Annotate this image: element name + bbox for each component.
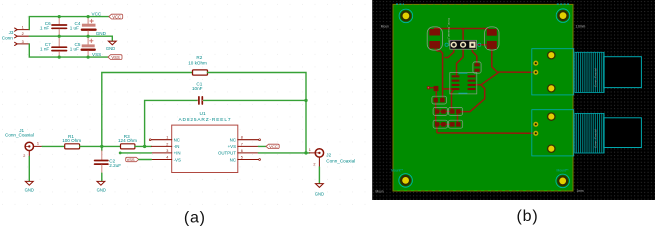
trace C right bottom pad to upper coax signal	[492, 49, 533, 72]
svg-text:Conn_Coaxial: Conn_Coaxial	[326, 159, 355, 164]
trace pad to row1	[435, 91, 437, 98]
mounting hole bottom-right	[556, 174, 570, 188]
wire C1 riser	[145, 100, 198, 146]
svg-text:7: 7	[241, 142, 243, 146]
svg-text:2: 2	[22, 32, 24, 36]
svg-text:3: 3	[166, 149, 168, 153]
wire VCC top rail	[29, 17, 109, 30]
capacitor C1	[192, 82, 204, 104]
svg-text:(a): (a)	[184, 210, 206, 227]
svg-text:Conn_Coaxial: Conn_Coaxial	[594, 68, 598, 87]
ground J2	[315, 167, 324, 197]
pin 1	[17, 29, 29, 31]
wire GND mid rail	[29, 36, 112, 41]
pin 8 NC	[238, 139, 259, 141]
vertical passive pad above row1	[434, 86, 439, 91]
svg-text:U1: U1	[200, 111, 206, 117]
pin 5 NC	[238, 159, 259, 161]
svg-text:1: 1	[37, 142, 39, 146]
trace bottom bus to lower coax	[437, 132, 533, 134]
node junction output	[304, 151, 307, 154]
wire R1 to R3	[80, 145, 121, 147]
svg-text:GND: GND	[106, 46, 115, 51]
svg-text:1: 1	[22, 26, 24, 30]
svg-text:1.6mm: 1.6mm	[576, 24, 586, 28]
svg-text:GND: GND	[97, 187, 106, 192]
capacitor footprint C left	[427, 27, 442, 50]
trace header pad3 to C?2 bottom pad	[476, 44, 487, 46]
power flag VSS	[108, 55, 122, 60]
svg-text:VSS: VSS	[92, 52, 101, 57]
svg-text:(b): (b)	[517, 208, 539, 225]
svg-text:NC: NC	[230, 138, 236, 143]
passive footprint row2 left	[433, 107, 447, 115]
svg-text:Mount**: Mount**	[391, 169, 404, 173]
capacitor C2	[95, 146, 122, 181]
svg-text:2: 2	[23, 154, 25, 158]
svg-text:Conn_Coaxial_Force: Conn_Coaxial_Force	[447, 18, 451, 47]
svg-text:124 Ohm: 124 Ohm	[118, 138, 137, 143]
coaxial connector J upper footprint	[532, 49, 642, 95]
trace C6 bottom down left column	[435, 49, 443, 101]
pin 4 -VS	[151, 159, 171, 161]
svg-text:J3: J3	[9, 30, 14, 35]
svg-text:1 nF: 1 nF	[40, 46, 49, 51]
ground C2	[97, 181, 106, 192]
svg-text:VCC: VCC	[112, 14, 121, 19]
svg-text:1 uF: 1 uF	[70, 26, 79, 31]
pin 1 NC	[151, 139, 171, 141]
svg-text:1mm: 1mm	[577, 189, 584, 193]
svg-text:1: 1	[309, 148, 311, 152]
svg-text:10nF: 10nF	[192, 86, 203, 91]
passive footprint row1	[432, 96, 447, 104]
trace row3 interconnect	[439, 123, 450, 125]
ground J1	[25, 157, 34, 193]
silkscreen dashes top edge left	[396, 3, 404, 5]
board edge dashes top	[412, 4, 470, 6]
svg-text:2: 2	[313, 162, 315, 166]
op-amp U1 AD825ARZ-REEL7	[149, 111, 260, 172]
SOIC-8 U1 footprint	[450, 73, 477, 94]
svg-text:AD825ARZ-REEL7: AD825ARZ-REEL7	[179, 117, 231, 123]
svg-text:VCC: VCC	[92, 12, 102, 17]
trace U1 left pad4 down to passive row2	[452, 90, 454, 109]
trace header pad2 down to U1 pad1	[457, 45, 464, 77]
capacitor C6	[40, 17, 67, 37]
svg-text:4: 4	[166, 156, 168, 160]
pin 6 OUTPUT	[238, 152, 259, 154]
svg-text:J2: J2	[326, 152, 331, 157]
trace branch to U1 pad 4	[443, 88, 452, 90]
wire VSS bottom rail	[29, 44, 108, 57]
svg-text:100 Ohm: 100 Ohm	[62, 138, 81, 143]
wire +VS to VCC flag	[258, 145, 266, 147]
svg-text:6: 6	[241, 149, 243, 153]
pin 3	[17, 43, 29, 45]
silkscreen marker right of header	[478, 43, 481, 46]
junction dots power rails	[58, 15, 90, 59]
pin 2 -IN	[151, 145, 171, 147]
trace U1 pin6 down around to passives	[461, 85, 485, 112]
pin header J3 footprint	[447, 18, 477, 49]
svg-text:5: 5	[241, 156, 243, 160]
svg-text:Mount**: Mount**	[557, 169, 570, 173]
trace row2 right down to row3	[457, 114, 459, 122]
capacitor C4 polarized	[70, 17, 96, 37]
svg-text:+IN: +IN	[174, 151, 181, 156]
connector J2 Conn_Coaxial	[309, 148, 355, 167]
svg-text:NC: NC	[230, 157, 236, 162]
trace vertical passive top pad to header pad3	[472, 48, 476, 64]
node junction C1/R2 output	[304, 99, 307, 102]
power flag VCC at pin 7	[266, 144, 279, 149]
PCB board outline	[393, 4, 573, 191]
capacitor footprint C right	[485, 27, 499, 50]
svg-text:VSS: VSS	[127, 157, 135, 162]
svg-text:10 kOhm: 10 kOhm	[188, 60, 207, 65]
trace left column verticals	[436, 102, 437, 133]
svg-text:OUTPUT: OUTPUT	[218, 151, 236, 156]
capacitor C5 polarized	[70, 36, 95, 57]
svg-text:Conn: Conn	[2, 36, 13, 41]
svg-text:GND: GND	[25, 187, 34, 192]
trace header pad1 to left vertical	[445, 48, 454, 58]
svg-text:NC: NC	[174, 138, 180, 143]
svg-text:1: 1	[166, 136, 168, 140]
trace via to passive	[429, 87, 435, 89]
ground symbol power section	[106, 41, 116, 51]
via near left passives	[427, 86, 430, 89]
passive footprint row3 right	[448, 120, 462, 128]
silkscreen dashes top edge right	[557, 3, 569, 5]
wire C1 to output riser	[204, 99, 307, 101]
svg-text:VSS: VSS	[111, 55, 120, 60]
svg-text:Conn_Coaxial: Conn_Coaxial	[5, 133, 34, 138]
trace row2 interconnect	[439, 110, 450, 112]
wire J1 to R1	[42, 145, 65, 147]
passive footprint row3 left	[433, 120, 447, 128]
node junction R1/C2/feedback	[100, 145, 103, 148]
svg-text:GND: GND	[96, 31, 107, 36]
power flag VCC	[109, 14, 123, 19]
svg-text:GND: GND	[315, 191, 324, 196]
wire +IN stub	[119, 152, 152, 155]
svg-text:1 uF: 1 uF	[70, 46, 79, 51]
svg-text:8: 8	[241, 136, 243, 140]
wire R3 to -IN	[135, 145, 152, 147]
svg-text:-IN: -IN	[174, 144, 180, 149]
pin 2	[17, 35, 29, 37]
mounting hole top-right	[556, 9, 570, 23]
trace C6 top to header pad2 and C4 top	[435, 29, 488, 45]
vertical passive footprint near U1	[473, 62, 481, 73]
capacitor C7	[40, 36, 67, 57]
resistor R2	[188, 55, 207, 75]
svg-text:3: 3	[22, 40, 24, 44]
resistor R1	[62, 134, 81, 149]
trace U1 pin6 diagonal to coax feed	[475, 72, 499, 85]
svg-text:VCC: VCC	[269, 144, 278, 149]
power flag VSS at pin 4	[126, 157, 152, 162]
pin 7 +VS	[238, 145, 259, 147]
wire R2 to output riser	[208, 73, 307, 153]
passive footprint row2 right	[448, 107, 462, 115]
svg-text:1 nF: 1 nF	[40, 26, 49, 31]
node junction C1 feedback	[143, 145, 146, 148]
mounting hole bottom-left	[399, 174, 413, 188]
mounting hole top-left	[399, 9, 413, 23]
silkscreen pin1 marker left of header	[445, 43, 448, 46]
coaxial connector J lower footprint	[532, 110, 642, 156]
PCB editor background	[372, 0, 655, 200]
svg-text:2: 2	[166, 142, 168, 146]
svg-text:R2: R2	[196, 55, 202, 60]
pin 3 +IN	[151, 152, 171, 154]
connector J3	[2, 26, 30, 46]
svg-text:2.2uF: 2.2uF	[109, 163, 121, 168]
svg-text:+VS: +VS	[228, 144, 236, 149]
connector J1 Conn_Coaxial	[5, 128, 42, 158]
svg-text:-VS: -VS	[174, 157, 181, 162]
wire OUTPUT to J2	[258, 152, 309, 154]
schematic sheet background	[0, 0, 372, 205]
board edge dashes bottom	[397, 189, 566, 191]
wire feedback R2 riser	[102, 73, 193, 147]
resistor R3	[118, 134, 137, 149]
svg-text:Conn_Coaxial: Conn_Coaxial	[594, 129, 598, 148]
svg-text:Moun: Moun	[381, 24, 389, 28]
svg-text:Moun: Moun	[376, 190, 384, 194]
